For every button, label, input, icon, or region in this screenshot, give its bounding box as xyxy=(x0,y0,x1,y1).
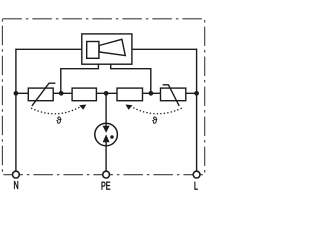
thermal trip arrowhead right xyxy=(126,105,133,110)
terminal L xyxy=(193,171,200,178)
label N xyxy=(14,181,18,189)
varistor RV2 (L side) body xyxy=(161,88,186,101)
label theta right xyxy=(152,117,157,124)
junction dot left branch xyxy=(59,91,64,96)
wire: L vertical conductor xyxy=(196,49,198,172)
thermal disconnector F1 (N side) xyxy=(72,88,96,101)
wire: main row center to L node xyxy=(106,92,197,94)
varistor RV1 symbol stroke xyxy=(32,83,56,106)
label PE xyxy=(102,182,111,190)
junction dot node N xyxy=(14,91,19,96)
wire: top bus right (signal box to L corner) xyxy=(132,48,197,50)
wire: gas tube to PE terminal xyxy=(105,142,107,171)
wire: main row N node to center xyxy=(16,92,106,94)
terminal N xyxy=(13,171,20,178)
thermal disconnector F2 (L side) xyxy=(117,88,143,101)
junction dot node L xyxy=(194,91,199,96)
signalling device: driver square xyxy=(87,42,99,59)
varistor RV2 symbol stroke xyxy=(163,85,180,106)
gas discharge tube gas dot xyxy=(110,135,114,139)
gas discharge tube electrode arrow up xyxy=(103,134,110,142)
wire: top bus left (N corner to signal box) xyxy=(16,48,82,50)
signalling device box U1 xyxy=(82,34,132,64)
wire: left branch to signalling contact (bus) xyxy=(61,64,99,93)
wire: N vertical conductor xyxy=(15,49,17,172)
label theta left xyxy=(56,117,61,124)
wire: PE drop from center node to gas tube xyxy=(105,93,107,126)
wire: right branch to signalling contact (bus) xyxy=(111,64,151,93)
gas discharge tube electrode arrow down xyxy=(103,126,110,133)
device boundary (dash-dot enclosure) xyxy=(2,19,204,175)
junction dot center PE node xyxy=(104,91,109,96)
gas discharge tube G1 xyxy=(95,123,118,146)
gas discharge tube wire stub bottom xyxy=(105,142,107,146)
signalling device: horn xyxy=(99,39,125,55)
thermal trip arc left (dotted) xyxy=(32,107,80,114)
thermal trip arrowhead left xyxy=(79,105,86,110)
thermal trip arc right (dotted) xyxy=(132,107,181,114)
terminal PE xyxy=(103,171,110,178)
junction dot right branch xyxy=(149,91,154,96)
label L xyxy=(195,182,198,190)
varistor RV1 (N side) body xyxy=(28,88,53,101)
gas discharge tube wire stub top xyxy=(105,124,107,127)
